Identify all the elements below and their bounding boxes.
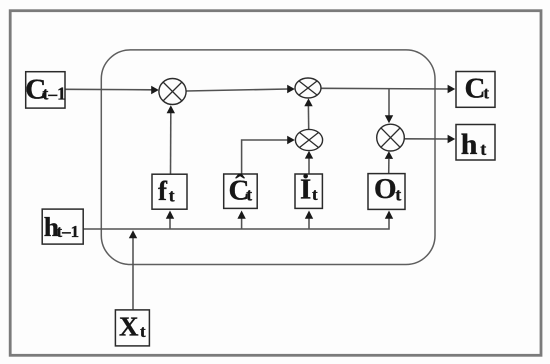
svg-text:t–1: t–1	[57, 222, 80, 241]
svg-text:t: t	[483, 84, 489, 103]
svg-text:t: t	[480, 139, 486, 159]
svg-text:t–1: t–1	[43, 84, 66, 104]
svg-text:C: C	[465, 73, 486, 105]
svg-text:t: t	[169, 185, 175, 205]
svg-text:X: X	[119, 312, 139, 342]
svg-text:t: t	[246, 185, 252, 205]
svg-text:h: h	[461, 128, 478, 161]
svg-text:t: t	[312, 185, 318, 204]
svg-text:f: f	[158, 176, 168, 206]
svg-text:İ: İ	[300, 173, 311, 206]
svg-text:t: t	[140, 322, 146, 341]
svg-text:O: O	[374, 173, 397, 205]
svg-text:t: t	[395, 184, 401, 204]
